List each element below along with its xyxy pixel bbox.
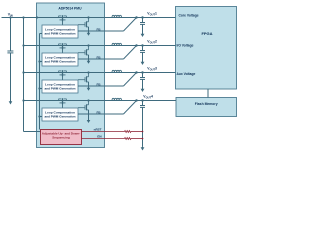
inductor L2	[112, 43, 122, 45]
wire feedback FB3	[78, 85, 124, 87]
node VOUT4	[135, 99, 137, 101]
wire gate drive channel 2	[78, 52, 85, 54]
wire feedback FB2	[78, 58, 124, 60]
transistor high-side switch Q2A	[59, 43, 62, 45]
PMU block ADP5014	[37, 3, 105, 148]
node nRST junction	[142, 131, 144, 133]
wire channel 2 VIN feed / switch-node rail	[22, 44, 24, 46]
sequencing block	[41, 130, 82, 145]
svg-text:ADP5014 PMU: ADP5014 PMU	[58, 7, 82, 11]
svg-text:VOUT3: VOUT3	[147, 67, 157, 72]
loop compensation block U4	[42, 108, 78, 121]
inductor L3	[112, 70, 122, 72]
wire nRST to node	[131, 131, 143, 133]
wire sequencing stub channel 4	[38, 115, 40, 117]
transistor high-side switch Q4A	[59, 98, 62, 100]
ground COUT3	[142, 79, 144, 89]
transistor low-side switch Q4B	[87, 99, 89, 101]
node CIN junction	[9, 16, 11, 18]
svg-text:VOUT4: VOUT4	[143, 95, 153, 100]
svg-text:I/O Voltage: I/O Voltage	[177, 43, 194, 47]
FPGA block	[176, 7, 237, 90]
ground low-side channel 3	[88, 82, 90, 89]
ground low-side channel 2	[88, 55, 90, 62]
inductor L1	[112, 15, 122, 17]
ground low-side channel 4	[88, 110, 90, 121]
inductor L4	[112, 98, 122, 100]
loop compensation block U1	[42, 25, 78, 38]
loop compensation block U3	[42, 80, 78, 93]
wire sequencing stub channel 1	[40, 33, 43, 35]
svg-text:Core Voltage: Core Voltage	[179, 14, 199, 18]
svg-text:FPGA: FPGA	[201, 31, 212, 36]
wire nRST signal	[82, 131, 125, 133]
capacitor COUT3	[141, 71, 143, 73]
node PMU VIN entry	[36, 16, 38, 18]
svg-text:EN: EN	[97, 135, 101, 139]
ground COUT1	[142, 24, 144, 34]
wire VIN distribution bus	[23, 18, 25, 132]
capacitor CIN branch wire	[10, 18, 12, 52]
wire sequencing stub channel 3	[38, 87, 40, 89]
svg-text:and PWM Generation: and PWM Generation	[44, 87, 75, 91]
node EN junction	[142, 138, 144, 140]
transistor low-side switch Q1B	[87, 16, 89, 18]
resistor R-EN	[125, 138, 132, 140]
transistor low-side switch Q3B	[87, 71, 89, 73]
resistor R-nRST	[125, 131, 132, 133]
wire VIN rail	[2, 17, 37, 19]
svg-text:VOUT2: VOUT2	[147, 40, 157, 45]
wire sequencing stub channel 2	[38, 60, 40, 62]
Flash Memory block	[176, 98, 237, 117]
wire gate drive channel 1	[78, 24, 85, 26]
wire COUT4 ground run	[142, 107, 144, 146]
svg-text:nRST: nRST	[94, 128, 102, 132]
ground CIN	[10, 53, 12, 102]
loop compensation block U2	[42, 53, 78, 66]
wire channel 4 VIN feed / switch-node rail	[22, 99, 24, 101]
wire feedback FB4	[78, 113, 124, 115]
capacitor COUT2	[141, 44, 143, 46]
svg-text:Sequencing: Sequencing	[52, 135, 70, 139]
wire EN signal	[82, 138, 125, 140]
svg-text:and PWM Generation: and PWM Generation	[44, 32, 75, 36]
wire gate drive channel 4	[78, 107, 85, 109]
ground low-side channel 1	[88, 27, 90, 34]
wire channel 3 VIN feed / switch-node rail	[22, 71, 24, 73]
wire channel 1 VIN feed / switch-node rail	[2, 17, 137, 19]
transistor high-side switch Q3A	[59, 70, 62, 72]
wire FPGA to Flash Memory	[207, 89, 209, 98]
node VIN bus junction	[22, 16, 24, 18]
capacitor COUT1	[141, 16, 143, 18]
svg-text:Flash Memory: Flash Memory	[195, 102, 218, 106]
wire VOUT3 to load	[137, 72, 176, 74]
node VOUT1	[135, 16, 137, 18]
capacitor COUT4	[141, 99, 143, 101]
wire feedback FB1	[78, 30, 124, 32]
svg-text:and PWM Generation: and PWM Generation	[44, 115, 75, 119]
wire sequencing bus	[39, 34, 41, 130]
wire EN to node	[131, 138, 143, 140]
node VOUT2	[135, 44, 137, 46]
ground COUT2	[142, 52, 144, 62]
svg-text:VOUT1: VOUT1	[147, 12, 157, 17]
transistor high-side switch Q1A	[59, 15, 62, 17]
svg-text:and PWM Generation: and PWM Generation	[44, 60, 75, 64]
transistor low-side switch Q2B	[87, 44, 89, 46]
wire gate drive channel 3	[78, 79, 85, 81]
node VOUT3	[135, 71, 137, 73]
wire VOUT2 to load	[137, 45, 176, 47]
wire VOUT1 to load	[137, 17, 176, 19]
svg-text:Aux Voltage: Aux Voltage	[177, 72, 196, 76]
wire VOUT4 to load	[137, 100, 177, 102]
ground COUT4	[142, 146, 144, 149]
capacitor CIN	[7, 50, 13, 52]
